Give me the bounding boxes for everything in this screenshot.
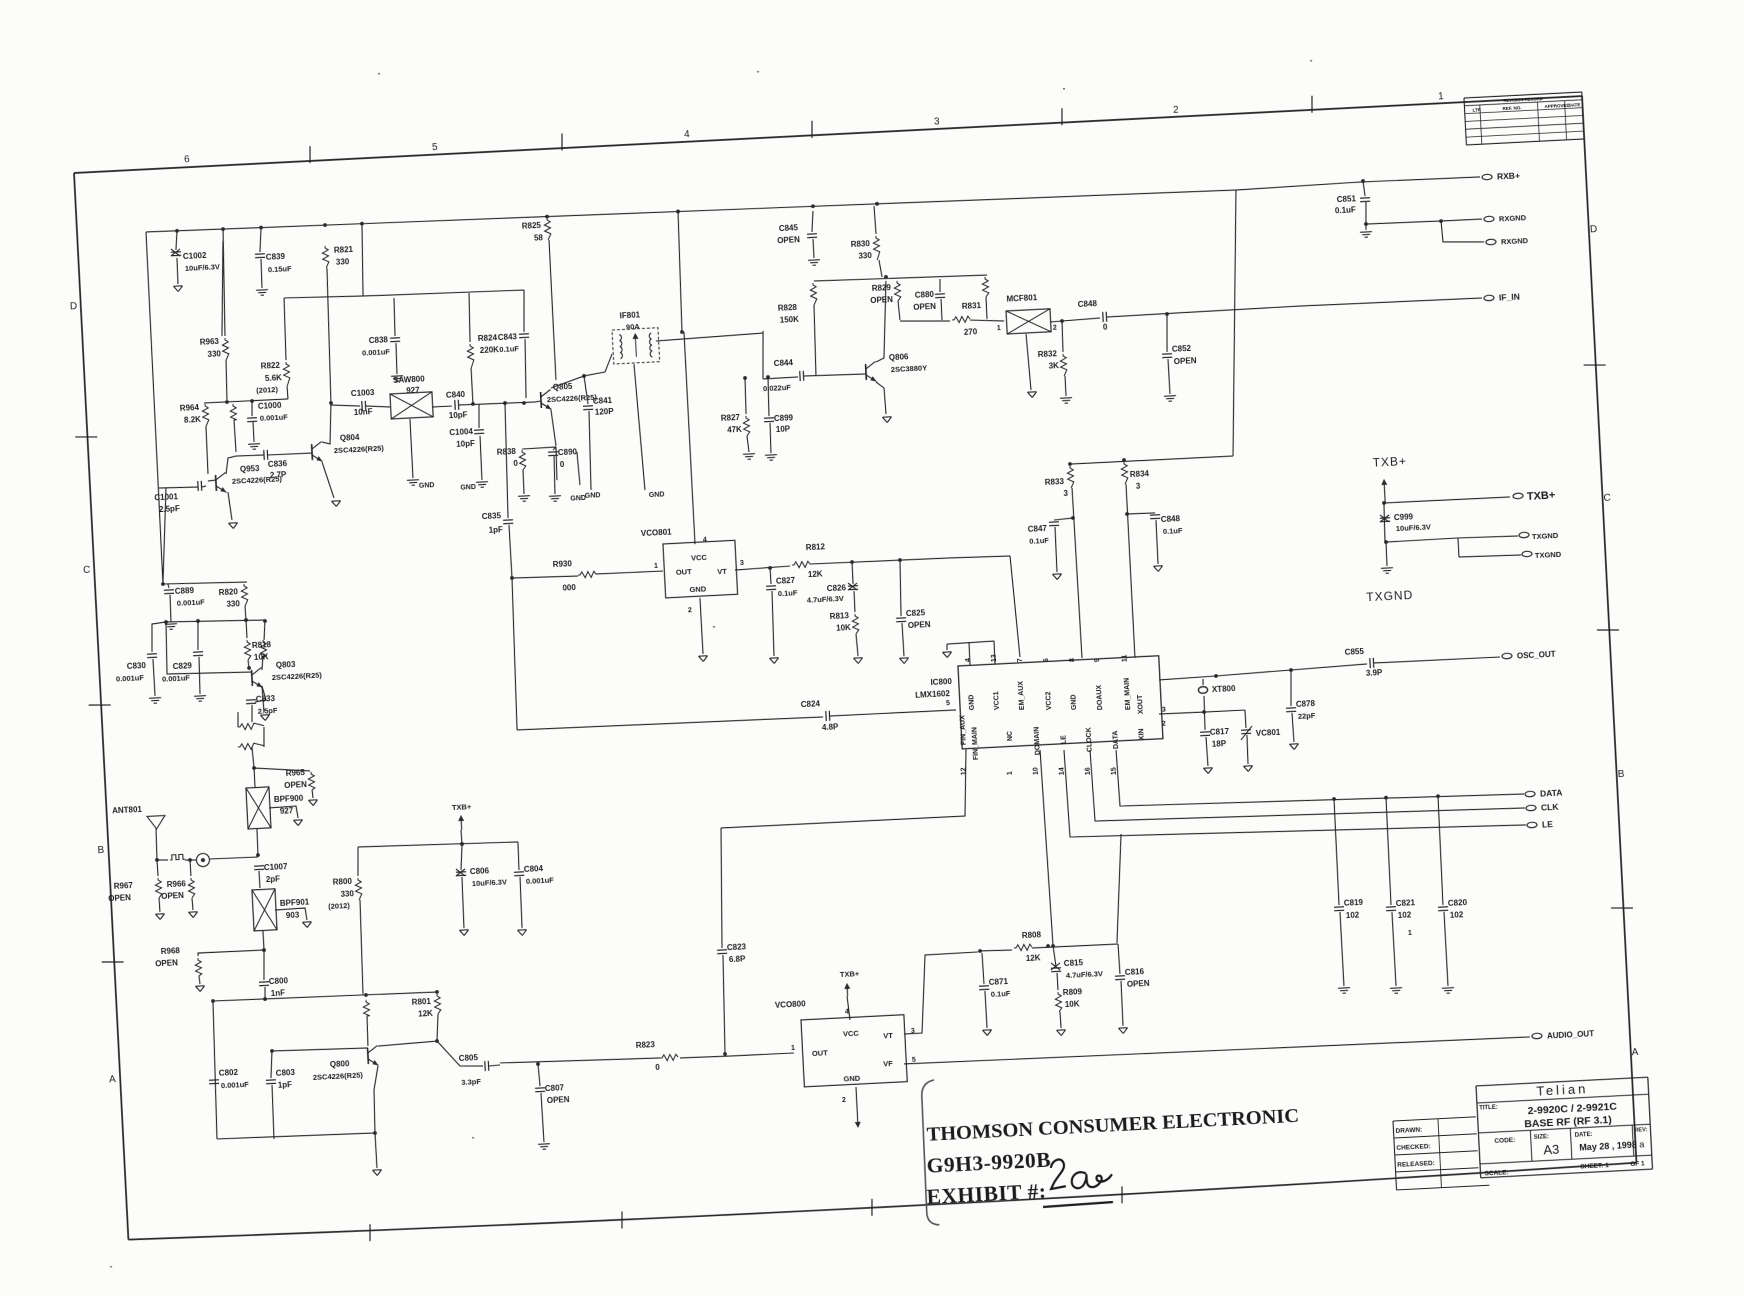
svg-text:VC801: VC801 — [1256, 728, 1281, 738]
svg-text:XIN: XIN — [1138, 728, 1146, 740]
svg-text:DRAWN:: DRAWN: — [1395, 1127, 1422, 1135]
svg-text:GND: GND — [689, 585, 707, 595]
svg-text:C848: C848 — [1078, 299, 1098, 309]
svg-text:BPF900: BPF900 — [274, 794, 304, 805]
svg-text:000: 000 — [562, 583, 576, 593]
svg-text:(2012): (2012) — [256, 385, 279, 395]
svg-text:DATA: DATA — [1540, 787, 1563, 798]
svg-text:C878: C878 — [1296, 699, 1316, 709]
svg-text:VCC1: VCC1 — [993, 691, 1001, 710]
svg-text:GND: GND — [968, 694, 976, 710]
svg-text:2: 2 — [1053, 325, 1057, 332]
svg-text:330: 330 — [207, 349, 221, 359]
svg-text:C803: C803 — [276, 1068, 296, 1078]
svg-text:R930: R930 — [553, 559, 573, 569]
svg-text:C826: C826 — [827, 583, 847, 593]
svg-text:C889: C889 — [175, 586, 195, 596]
svg-text:OPEN: OPEN — [284, 780, 307, 790]
svg-text:OPEN: OPEN — [1127, 979, 1150, 989]
svg-text:1: 1 — [791, 1045, 795, 1052]
svg-text:C840: C840 — [446, 390, 466, 400]
svg-text:10K: 10K — [836, 623, 851, 633]
svg-text:270: 270 — [964, 327, 978, 337]
svg-text:C825: C825 — [906, 608, 926, 618]
svg-text:DOMAIN: DOMAIN — [1034, 727, 1042, 756]
svg-text:Q800: Q800 — [330, 1059, 351, 1069]
svg-text:OUT: OUT — [812, 1048, 829, 1058]
svg-text:11: 11 — [1122, 654, 1129, 662]
svg-text:2.5pF: 2.5pF — [159, 504, 180, 514]
svg-text:10uF/6.3V: 10uF/6.3V — [185, 262, 220, 273]
svg-text:4: 4 — [703, 537, 707, 544]
svg-text:120P: 120P — [595, 407, 615, 417]
svg-text:C835: C835 — [482, 511, 502, 521]
svg-text:10: 10 — [1033, 767, 1040, 775]
svg-text:12K: 12K — [808, 569, 823, 579]
svg-text:2: 2 — [842, 1097, 846, 1104]
svg-text:R827: R827 — [721, 413, 741, 423]
svg-text:3: 3 — [1162, 707, 1166, 714]
svg-text:C833: C833 — [256, 694, 276, 704]
svg-text:R822: R822 — [261, 361, 281, 371]
svg-text:6: 6 — [1043, 658, 1050, 662]
svg-text:C802: C802 — [219, 1068, 239, 1078]
svg-text:0.1uF: 0.1uF — [1335, 205, 1356, 215]
svg-text:C1002: C1002 — [183, 251, 208, 261]
svg-text:TXGND: TXGND — [1535, 550, 1562, 560]
svg-text:10K: 10K — [1065, 999, 1080, 1009]
svg-text:R964: R964 — [180, 403, 200, 413]
svg-text:C824: C824 — [801, 699, 821, 709]
svg-text:LMX1602: LMX1602 — [915, 689, 951, 700]
svg-text:18P: 18P — [1212, 739, 1227, 749]
svg-text:C800: C800 — [269, 976, 289, 986]
svg-text:CLOCK: CLOCK — [1086, 727, 1094, 752]
svg-text:1: 1 — [1408, 930, 1412, 937]
svg-text:DATE: DATE — [1568, 102, 1580, 108]
svg-text:C1004: C1004 — [449, 427, 474, 437]
svg-text:2: 2 — [688, 607, 692, 614]
svg-text:6.8P: 6.8P — [729, 954, 747, 964]
svg-text:0.1uF: 0.1uF — [1163, 526, 1183, 536]
svg-text:GND: GND — [843, 1074, 861, 1084]
svg-text:C847: C847 — [1028, 524, 1048, 534]
svg-text:1pF: 1pF — [488, 525, 503, 535]
svg-text:R968: R968 — [161, 946, 181, 956]
svg-text:Q806: Q806 — [889, 352, 910, 362]
svg-text:OPEN: OPEN — [908, 620, 931, 630]
svg-text:5: 5 — [912, 1057, 916, 1064]
svg-text:(2012): (2012) — [328, 901, 351, 911]
svg-text:330: 330 — [858, 251, 872, 261]
svg-text:2.5pF: 2.5pF — [258, 706, 278, 716]
svg-text:R820: R820 — [219, 587, 239, 597]
svg-text:XOUT: XOUT — [1137, 694, 1145, 714]
svg-text:CLK: CLK — [1541, 802, 1560, 813]
svg-text:TXB+: TXB+ — [1527, 490, 1556, 503]
svg-text:3: 3 — [740, 560, 744, 567]
svg-text:C999: C999 — [1394, 512, 1414, 522]
svg-text:0.022uF: 0.022uF — [763, 383, 792, 393]
svg-text:4.7uF/6.3V: 4.7uF/6.3V — [807, 594, 845, 605]
svg-text:R829: R829 — [872, 283, 892, 293]
svg-text:A: A — [109, 1074, 117, 1085]
svg-text:D: D — [1590, 224, 1598, 235]
svg-text:C848: C848 — [1161, 514, 1181, 524]
svg-text:927: 927 — [406, 386, 420, 396]
svg-text:C838: C838 — [369, 335, 389, 345]
svg-text:0.1uF: 0.1uF — [1029, 536, 1049, 546]
svg-text:R812: R812 — [806, 542, 826, 552]
svg-text:SIZE:: SIZE: — [1534, 1134, 1550, 1141]
svg-text:VCC: VCC — [691, 553, 708, 563]
svg-text:OPEN: OPEN — [155, 958, 178, 968]
svg-text:927: 927 — [280, 806, 294, 816]
svg-text:12K: 12K — [418, 1009, 433, 1019]
svg-text:12: 12 — [961, 767, 968, 775]
svg-text:R965: R965 — [286, 768, 306, 778]
svg-text:4: 4 — [684, 129, 691, 140]
svg-text:R823: R823 — [636, 1040, 656, 1050]
svg-text:Q803: Q803 — [276, 660, 297, 670]
svg-text:1: 1 — [1007, 771, 1014, 775]
svg-text:BPF901: BPF901 — [280, 897, 310, 908]
svg-text:4: 4 — [965, 658, 972, 662]
svg-text:EM_AUX: EM_AUX — [1017, 680, 1025, 710]
svg-text:LE: LE — [1542, 819, 1554, 830]
svg-text:OPEN: OPEN — [108, 893, 131, 903]
svg-text:C823: C823 — [727, 942, 747, 952]
svg-text:0.001uF: 0.001uF — [362, 347, 391, 357]
svg-text:LTR: LTR — [1472, 107, 1481, 112]
svg-text:C830: C830 — [127, 661, 147, 671]
svg-text:C816: C816 — [1125, 967, 1145, 977]
svg-text:GND: GND — [570, 495, 586, 503]
svg-text:R834: R834 — [1130, 469, 1150, 479]
svg-text:R831: R831 — [962, 301, 982, 311]
svg-text:a: a — [1639, 1139, 1645, 1149]
svg-text:0.1uF: 0.1uF — [991, 989, 1011, 999]
svg-text:C890: C890 — [558, 447, 578, 457]
svg-text:TITLE:: TITLE: — [1479, 1105, 1498, 1112]
svg-text:1: 1 — [1438, 91, 1445, 102]
svg-text:C821: C821 — [1396, 898, 1416, 908]
svg-text:C851: C851 — [1337, 194, 1357, 204]
svg-text:C843: C843 — [498, 332, 518, 342]
svg-text:OPEN: OPEN — [870, 295, 893, 305]
svg-text:R818: R818 — [252, 640, 272, 650]
svg-text:C: C — [1603, 493, 1611, 504]
svg-text:C1001: C1001 — [154, 492, 179, 502]
svg-text:1pF: 1pF — [278, 1080, 293, 1090]
svg-text:Telian: Telian — [1536, 1081, 1589, 1099]
svg-text:A3: A3 — [1543, 1142, 1560, 1158]
svg-text:IF_IN: IF_IN — [1499, 291, 1520, 302]
svg-text:47K: 47K — [727, 425, 742, 435]
svg-text:C815: C815 — [1064, 958, 1084, 968]
svg-text:5: 5 — [432, 142, 439, 153]
svg-text:DOAUX: DOAUX — [1096, 684, 1104, 710]
svg-text:C827: C827 — [776, 576, 796, 586]
svg-text:C899: C899 — [774, 413, 794, 423]
svg-text:VCO800: VCO800 — [775, 999, 807, 1010]
svg-text:C1003: C1003 — [351, 388, 376, 398]
svg-text:VT: VT — [883, 1031, 893, 1040]
svg-text:2pF: 2pF — [266, 874, 281, 884]
svg-text:5.6K: 5.6K — [265, 373, 283, 383]
svg-text:102: 102 — [1398, 910, 1412, 920]
svg-text:C845: C845 — [779, 223, 799, 233]
svg-text:XT800: XT800 — [1212, 684, 1237, 694]
svg-text:VF: VF — [883, 1059, 893, 1068]
svg-text:3.3pF: 3.3pF — [461, 1077, 481, 1087]
svg-text:R828: R828 — [778, 303, 798, 313]
svg-text:90A: 90A — [626, 322, 641, 332]
svg-text:R832: R832 — [1038, 349, 1058, 359]
svg-text:10uF/6.3V: 10uF/6.3V — [1396, 522, 1431, 533]
svg-text:8: 8 — [1069, 658, 1076, 662]
svg-text:3K: 3K — [1048, 361, 1059, 371]
svg-text:102: 102 — [1346, 910, 1360, 920]
svg-text:0.1uF: 0.1uF — [499, 344, 519, 354]
svg-text:GND: GND — [649, 491, 665, 499]
svg-text:R809: R809 — [1063, 987, 1083, 997]
svg-text:RXGND: RXGND — [1501, 236, 1529, 246]
svg-text:2SC3880Y: 2SC3880Y — [891, 363, 928, 374]
svg-text:B: B — [1617, 769, 1625, 780]
svg-text:22pF: 22pF — [1298, 711, 1316, 721]
svg-text:6: 6 — [184, 154, 191, 165]
svg-text:1: 1 — [997, 325, 1001, 332]
svg-text:5: 5 — [946, 700, 950, 707]
svg-text:4.8P: 4.8P — [822, 722, 840, 732]
svg-text:R833: R833 — [1045, 477, 1065, 487]
svg-text:A: A — [1631, 1047, 1639, 1058]
svg-text:12K: 12K — [1026, 953, 1041, 963]
svg-text:330: 330 — [340, 889, 354, 899]
svg-text:VCC: VCC — [843, 1029, 860, 1039]
svg-text:R800: R800 — [333, 877, 353, 887]
svg-text:CODE:: CODE: — [1494, 1137, 1515, 1145]
svg-text:Q953: Q953 — [240, 464, 261, 474]
svg-text:10nF: 10nF — [354, 407, 373, 417]
svg-text:Q804: Q804 — [340, 433, 361, 443]
svg-text:0.001uF: 0.001uF — [116, 673, 145, 683]
svg-text:R825: R825 — [522, 221, 542, 231]
svg-text:OPEN: OPEN — [547, 1095, 570, 1105]
svg-text:B: B — [97, 845, 105, 856]
svg-text:TXGND: TXGND — [1366, 588, 1414, 604]
svg-text:10pF: 10pF — [456, 439, 475, 449]
svg-text:2: 2 — [1162, 721, 1166, 728]
svg-text:C1007: C1007 — [264, 862, 289, 872]
svg-text:C1000: C1000 — [258, 401, 283, 411]
svg-text:0.15uF: 0.15uF — [268, 264, 293, 274]
svg-text:2: 2 — [1173, 104, 1180, 115]
svg-text:0.001uF: 0.001uF — [162, 673, 191, 683]
svg-text:OPEN: OPEN — [913, 302, 936, 312]
svg-text:R813: R813 — [830, 611, 850, 621]
svg-text:0.1uF: 0.1uF — [778, 588, 798, 598]
svg-text:NC: NC — [1006, 731, 1014, 741]
svg-text:IF801: IF801 — [619, 310, 640, 320]
svg-text:VCC2: VCC2 — [1045, 691, 1053, 710]
svg-text:C839: C839 — [266, 252, 286, 262]
svg-text:OF 1: OF 1 — [1630, 1160, 1645, 1168]
svg-text:VT: VT — [717, 567, 727, 576]
svg-text:C880: C880 — [915, 290, 935, 300]
svg-text:SCALE:: SCALE: — [1484, 1169, 1509, 1177]
svg-text:9: 9 — [1094, 658, 1101, 662]
svg-text:TXGND: TXGND — [1532, 531, 1559, 541]
svg-text:GND: GND — [419, 482, 435, 490]
svg-text:0.001uF: 0.001uF — [177, 598, 206, 608]
svg-text:2.7P: 2.7P — [270, 470, 288, 480]
svg-text:REV:: REV: — [1634, 1127, 1647, 1134]
svg-text:RXB+: RXB+ — [1497, 170, 1520, 181]
svg-text:R824: R824 — [478, 333, 498, 343]
svg-text:C841: C841 — [593, 396, 613, 406]
svg-text:8.2K: 8.2K — [184, 415, 202, 425]
svg-text:C817: C817 — [1210, 727, 1230, 737]
svg-text:GND: GND — [460, 484, 476, 492]
svg-text:TXB+: TXB+ — [1372, 454, 1407, 470]
svg-text:TXB+: TXB+ — [840, 969, 860, 979]
svg-text:TXB+: TXB+ — [452, 802, 472, 812]
svg-text:VCO801: VCO801 — [641, 527, 673, 538]
svg-text:10uF/6.3V: 10uF/6.3V — [472, 877, 507, 888]
svg-text:C807: C807 — [545, 1083, 565, 1093]
svg-text:C820: C820 — [1448, 898, 1468, 908]
svg-text:C804: C804 — [524, 864, 544, 874]
svg-text:7: 7 — [1017, 658, 1024, 662]
svg-text:R963: R963 — [200, 337, 220, 347]
svg-text:3: 3 — [934, 116, 941, 127]
svg-text:RXGND: RXGND — [1499, 213, 1527, 223]
svg-text:330: 330 — [336, 257, 350, 267]
svg-text:10P: 10P — [776, 424, 791, 434]
svg-text:DATA: DATA — [1112, 730, 1120, 749]
svg-text:C: C — [83, 565, 91, 576]
svg-text:150K: 150K — [780, 315, 800, 325]
svg-text:C806: C806 — [470, 866, 490, 876]
svg-text:REF. NO.: REF. NO. — [1502, 105, 1521, 111]
svg-text:0.001uF: 0.001uF — [221, 1080, 250, 1090]
svg-text:R967: R967 — [114, 881, 134, 891]
svg-text:C871: C871 — [989, 977, 1009, 987]
svg-text:3.9P: 3.9P — [1366, 668, 1384, 678]
svg-text:MCF801: MCF801 — [1006, 293, 1038, 304]
svg-text:1: 1 — [654, 563, 658, 570]
svg-text:903: 903 — [286, 910, 300, 920]
svg-text:C852: C852 — [1172, 344, 1192, 354]
svg-text:SHEET: 1: SHEET: 1 — [1580, 1162, 1609, 1170]
svg-text:330: 330 — [226, 599, 240, 609]
svg-text:102: 102 — [1450, 910, 1464, 920]
svg-text:ANT801: ANT801 — [112, 805, 143, 816]
svg-text:D: D — [70, 301, 78, 312]
svg-text:R801: R801 — [412, 997, 432, 1007]
svg-text:GND: GND — [1070, 694, 1078, 710]
svg-text:1nF: 1nF — [271, 988, 286, 998]
svg-text:10pF: 10pF — [449, 410, 468, 420]
svg-text:OPEN: OPEN — [161, 891, 184, 901]
svg-text:GND: GND — [585, 492, 601, 500]
svg-text:LE: LE — [1061, 735, 1068, 745]
svg-text:IC800: IC800 — [930, 677, 952, 687]
svg-text:220K: 220K — [480, 345, 500, 355]
svg-text:R966: R966 — [167, 879, 187, 889]
svg-text:OUT: OUT — [676, 567, 693, 577]
svg-text:OPEN: OPEN — [1174, 356, 1197, 366]
svg-text:OPEN: OPEN — [777, 235, 800, 245]
svg-text:0.001uF: 0.001uF — [526, 876, 555, 886]
svg-text:4.7uF/6.3V: 4.7uF/6.3V — [1066, 969, 1104, 980]
svg-text:C836: C836 — [268, 459, 288, 469]
svg-text:C844: C844 — [774, 358, 794, 368]
svg-text:C855: C855 — [1345, 647, 1365, 657]
svg-text:0.001uF: 0.001uF — [260, 413, 289, 423]
svg-text:58: 58 — [534, 233, 544, 242]
svg-text:R821: R821 — [334, 245, 354, 255]
svg-text:C829: C829 — [173, 661, 193, 671]
svg-text:C805: C805 — [459, 1053, 479, 1063]
svg-text:C819: C819 — [1344, 898, 1364, 908]
svg-text:DATE:: DATE: — [1575, 1132, 1593, 1139]
svg-text:R830: R830 — [850, 239, 870, 249]
svg-text:R808: R808 — [1022, 930, 1042, 940]
